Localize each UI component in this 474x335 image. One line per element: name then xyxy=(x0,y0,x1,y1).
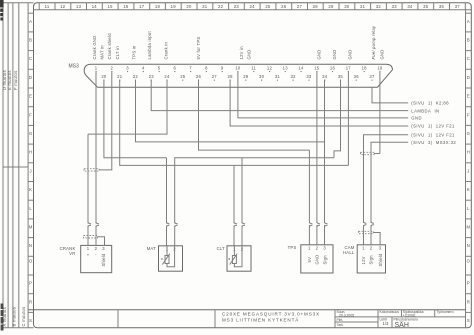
svg-text:Crank GND: Crank GND xyxy=(92,36,97,60)
svg-text:13: 13 xyxy=(76,4,82,9)
svg-text:3: 3 xyxy=(126,66,129,71)
svg-text:12: 12 xyxy=(267,66,273,71)
svg-text:24: 24 xyxy=(164,74,170,79)
svg-text:A: A xyxy=(467,19,470,24)
svg-text:33: 33 xyxy=(392,4,398,9)
svg-text:SÄH: SÄH xyxy=(395,321,409,329)
svg-text:5V: 5V xyxy=(307,257,312,263)
sensor CLT box xyxy=(217,246,251,271)
svg-text:A muutos: A muutos xyxy=(2,307,7,326)
wire pin20 to MAT pin1 xyxy=(104,80,167,158)
svg-text:P: P xyxy=(29,281,32,286)
wire CRANK plus drop xyxy=(87,134,89,223)
svg-text:23: 23 xyxy=(149,74,155,79)
svg-text:25: 25 xyxy=(180,74,186,79)
title field Sijoituspaikka xyxy=(403,310,424,317)
connector pin numbers row 20-37 xyxy=(101,74,375,81)
svg-text:D: D xyxy=(467,75,470,80)
svg-text:F muutos: F muutos xyxy=(13,71,18,90)
svg-text:35: 35 xyxy=(338,74,344,79)
svg-text:D: D xyxy=(29,75,32,80)
MAT thermistor xyxy=(166,246,168,256)
wire pin21 to CLT pin1 xyxy=(120,80,349,166)
svg-text:27: 27 xyxy=(297,4,303,9)
crank shield bottom dashed xyxy=(84,236,98,238)
inline connector symbols xyxy=(88,222,374,227)
svg-text:C: C xyxy=(467,56,470,61)
svg-text:MS3: MS3 xyxy=(69,64,80,70)
wire pin17 GND xyxy=(347,72,349,166)
svg-text:LAMBDA IN: LAMBDA IN xyxy=(411,108,439,113)
svg-text:B: B xyxy=(29,38,32,43)
svg-text:14: 14 xyxy=(92,4,98,9)
svg-text:J: J xyxy=(30,168,32,173)
svg-text:L: L xyxy=(29,206,32,211)
svg-text:1: 1 xyxy=(308,246,311,251)
svg-text:Shield: Shield xyxy=(101,253,106,267)
wire MAT pin1 drop xyxy=(166,158,168,224)
left border row letters xyxy=(28,13,33,323)
svg-text:Crank in: Crank in xyxy=(164,41,169,59)
wire CLT pin2 lower xyxy=(241,226,243,246)
svg-text:GND: GND xyxy=(315,254,320,264)
svg-text:2: 2 xyxy=(370,246,373,251)
cam shield to pin3 xyxy=(373,233,380,245)
svg-text:28: 28 xyxy=(313,4,319,9)
svg-text:GND: GND xyxy=(411,116,422,121)
svg-text:19: 19 xyxy=(377,66,383,71)
svg-text:3: 3 xyxy=(102,246,105,251)
svg-text:12V: 12V xyxy=(361,256,366,264)
svg-text:Sign: Sign xyxy=(369,255,374,265)
wire pin28 to 12V F21 xyxy=(230,80,408,127)
svg-text:17: 17 xyxy=(346,66,352,71)
svg-text:29: 29 xyxy=(243,74,249,79)
svg-text:26: 26 xyxy=(196,74,202,79)
svg-text:33: 33 xyxy=(306,74,312,79)
wire MS3X:32 to CAM Sign xyxy=(371,142,408,223)
net label (SIVU 3) MS3X:32 xyxy=(411,140,456,145)
wire 12V F21 to CAM 12V xyxy=(364,135,409,223)
wire pin34 TPS Sign drop xyxy=(324,80,326,223)
svg-text:TPS in: TPS in xyxy=(131,45,136,59)
svg-text:1: 1 xyxy=(95,66,98,71)
crank shield to pin3 xyxy=(98,237,105,246)
svg-text:Työnumero: Työnumero xyxy=(437,310,454,314)
svg-text:17: 17 xyxy=(139,4,145,9)
svg-text:6: 6 xyxy=(174,66,177,71)
net label GND xyxy=(411,116,422,121)
svg-text:HALL: HALL xyxy=(343,250,355,255)
svg-text:A: A xyxy=(29,19,32,24)
svg-text:34: 34 xyxy=(322,74,328,79)
wire pin24 Crank in feed xyxy=(88,80,167,135)
svg-text:S: S xyxy=(29,318,32,323)
svg-text:F: F xyxy=(29,112,32,117)
svg-text:M: M xyxy=(29,225,33,230)
svg-text:G: G xyxy=(29,131,33,136)
svg-text:K: K xyxy=(29,187,32,192)
svg-text:12: 12 xyxy=(60,4,66,9)
svg-text:3: 3 xyxy=(379,246,382,251)
svg-text:TPS: TPS xyxy=(288,245,297,250)
svg-text:31: 31 xyxy=(360,4,366,9)
svg-text:Sign: Sign xyxy=(322,255,327,265)
svg-text:MAT in: MAT in xyxy=(100,45,105,60)
top border column numbers 11-37 xyxy=(39,3,465,10)
svg-text:CLT in: CLT in xyxy=(115,46,120,60)
wire pin15 to TPS GND pin2 xyxy=(316,72,318,223)
scan artifact bottom-left stamp text xyxy=(1,304,4,331)
svg-text:Shield: Shield xyxy=(378,253,383,267)
svg-text:E: E xyxy=(29,94,32,99)
CLT thermistor xyxy=(233,246,235,256)
svg-text:10: 10 xyxy=(235,66,241,71)
svg-text:37: 37 xyxy=(455,4,461,9)
svg-text:31: 31 xyxy=(275,74,281,79)
svg-text:CLT: CLT xyxy=(217,246,226,251)
svg-text:2: 2 xyxy=(95,246,98,251)
svg-text:1: 1 xyxy=(87,246,90,251)
svg-text:36: 36 xyxy=(439,4,445,9)
svg-text:E: E xyxy=(467,94,470,99)
svg-text:1/3: 1/3 xyxy=(383,321,389,326)
scan artifact top-left xyxy=(0,0,4,21)
svg-text:GND: GND xyxy=(317,49,322,59)
svg-text:GND: GND xyxy=(332,49,337,59)
wire TPS 5V drop xyxy=(308,150,310,223)
svg-text:3: 3 xyxy=(323,246,326,251)
net label (SIVU 1) K2:86 xyxy=(411,101,449,106)
svg-text:20: 20 xyxy=(186,4,192,9)
svg-text:M: M xyxy=(467,225,471,230)
svg-text:B: B xyxy=(467,38,470,43)
svg-text:21: 21 xyxy=(202,4,208,9)
connector pin numbers row 1-19 xyxy=(95,66,383,73)
svg-text:Fuel pump relay: Fuel pump relay xyxy=(371,25,376,59)
svg-text:K: K xyxy=(467,187,470,192)
svg-text:11: 11 xyxy=(251,66,256,71)
svg-text:C20XE MEGASQUIRT 3V3.0+MS3X: C20XE MEGASQUIRT 3V3.0+MS3X xyxy=(222,311,320,316)
svg-text:Piirustusnumero: Piirustusnumero xyxy=(394,317,419,321)
svg-text:5: 5 xyxy=(158,66,161,71)
wire MAT pin2 to CLT pin2 bus xyxy=(175,158,334,224)
svg-text:25: 25 xyxy=(265,4,271,9)
svg-text:19: 19 xyxy=(171,4,177,9)
svg-text:7: 7 xyxy=(189,66,192,71)
svg-text:16: 16 xyxy=(330,66,336,71)
svg-text:12V in: 12V in xyxy=(239,46,244,60)
svg-text:VR: VR xyxy=(69,251,75,256)
title field Suun xyxy=(337,310,355,327)
svg-text:29: 29 xyxy=(328,4,334,9)
svg-text:MS3 LIITTIMEN KYTKENTÄ: MS3 LIITTIMEN KYTKENTÄ xyxy=(222,316,299,322)
svg-text:37: 37 xyxy=(369,74,375,79)
svg-text:30: 30 xyxy=(259,74,265,79)
svg-text:22: 22 xyxy=(133,74,139,79)
svg-text:30: 30 xyxy=(344,4,350,9)
svg-text:Lambda input: Lambda input xyxy=(147,31,152,60)
svg-text:E muutos: E muutos xyxy=(7,70,12,90)
svg-text:18: 18 xyxy=(362,66,368,71)
svg-text:23: 23 xyxy=(234,4,240,9)
crank cable shield dashed top xyxy=(84,169,99,171)
wire pin2 crank shield tap xyxy=(99,72,112,170)
svg-text:Kokonaisuus: Kokonaisuus xyxy=(380,310,400,314)
svg-text:8: 8 xyxy=(205,66,208,71)
svg-text:O: O xyxy=(29,259,33,264)
wire pin26 to TPS 5V xyxy=(199,80,310,151)
wire pin23 to LAMBDA IN xyxy=(151,80,408,111)
svg-text:N: N xyxy=(467,243,470,248)
svg-text:R: R xyxy=(467,299,470,304)
wire pin22 to TPS Sign xyxy=(136,80,325,142)
svg-text:32: 32 xyxy=(376,4,382,9)
title block xyxy=(28,310,465,328)
svg-text:18: 18 xyxy=(155,4,161,9)
svg-text:(SIVU 1) 12V F21: (SIVU 1) 12V F21 xyxy=(411,124,455,129)
svg-text:35: 35 xyxy=(423,4,429,9)
sensor CRANK VR box xyxy=(60,245,112,272)
svg-text:R: R xyxy=(29,299,32,304)
svg-text:4: 4 xyxy=(142,66,145,71)
svg-text:GND: GND xyxy=(348,49,353,59)
svg-text:36: 36 xyxy=(354,74,360,79)
svg-text:Piirt.: Piirt. xyxy=(337,318,344,322)
svg-text:(SIVU 1) 12V F21: (SIVU 1) 12V F21 xyxy=(411,132,455,137)
svg-text:34: 34 xyxy=(407,4,413,9)
svg-text:GND: GND xyxy=(246,49,251,59)
svg-text:O: O xyxy=(467,259,471,264)
wire pin35 GND to sensor bus xyxy=(334,80,341,158)
title field Lehti 1/3 xyxy=(380,317,389,326)
svg-text:G: G xyxy=(467,131,471,136)
svg-text:H: H xyxy=(29,150,32,155)
svg-text:32: 32 xyxy=(291,74,297,79)
wire pin1 Crank GND to CRANK pin2 xyxy=(95,72,97,224)
svg-text:+: + xyxy=(87,253,90,258)
svg-text:11: 11 xyxy=(45,4,50,9)
right border row letters xyxy=(466,10,472,328)
svg-text:24: 24 xyxy=(250,4,256,9)
svg-text:MAT: MAT xyxy=(147,246,156,251)
sensor MAT box xyxy=(147,246,183,271)
svg-text:Tark.: Tark. xyxy=(337,323,344,327)
connector MS3 DB37 shell xyxy=(84,64,392,87)
svg-text:F: F xyxy=(467,112,470,117)
svg-text:B muutos: B muutos xyxy=(12,307,17,327)
svg-text:H: H xyxy=(467,150,470,155)
net label (SIVU 1) 12V F21 xyxy=(411,124,455,129)
svg-text:S: S xyxy=(467,318,470,323)
svg-text:9: 9 xyxy=(221,66,224,71)
svg-text:C: C xyxy=(29,56,32,61)
net label (SIVU 1) 12V F21 second xyxy=(411,132,455,137)
net label LAMBDA IN xyxy=(411,108,439,113)
wire pin10 to GND net xyxy=(238,72,408,118)
sensor CAM HALL box xyxy=(343,245,385,273)
svg-text:P: P xyxy=(467,281,470,286)
svg-text:29.3.2005: 29.3.2005 xyxy=(339,313,354,317)
svg-text:15: 15 xyxy=(314,66,320,71)
svg-text:C muutos: C muutos xyxy=(21,307,26,327)
svg-text:L: L xyxy=(467,206,470,211)
cam shield bottom dashed xyxy=(359,231,374,233)
svg-text:14: 14 xyxy=(298,66,304,71)
svg-text:(SIVU 3) MS3X:32: (SIVU 3) MS3X:32 xyxy=(411,140,456,145)
svg-text:N: N xyxy=(29,243,32,248)
left revision table columns xyxy=(3,3,34,328)
wire pin19 GND to cam shield xyxy=(379,72,381,154)
svg-text:1: 1 xyxy=(362,246,365,251)
svg-text:22: 22 xyxy=(218,4,224,9)
cam cable shield dashed top xyxy=(361,152,375,154)
svg-text:(SIVU 1) K2:86: (SIVU 1) K2:86 xyxy=(411,101,449,106)
svg-text:GND: GND xyxy=(379,49,384,59)
svg-text:Crank shield: Crank shield xyxy=(107,33,112,60)
svg-text:5V for TPS: 5V for TPS xyxy=(196,37,201,60)
svg-text:J: J xyxy=(467,168,469,173)
svg-text:26: 26 xyxy=(281,4,287,9)
svg-text:28: 28 xyxy=(228,74,234,79)
svg-text:27: 27 xyxy=(212,74,218,79)
svg-text:15: 15 xyxy=(108,4,114,9)
sensor TPS box xyxy=(288,245,333,273)
svg-text:20: 20 xyxy=(101,74,107,79)
svg-text:21: 21 xyxy=(117,74,123,79)
svg-text:2: 2 xyxy=(111,66,114,71)
svg-text:13: 13 xyxy=(283,66,289,71)
svg-text:16: 16 xyxy=(123,4,129,9)
svg-text:2: 2 xyxy=(316,246,319,251)
wire pin37 to K2:86 xyxy=(372,87,408,103)
